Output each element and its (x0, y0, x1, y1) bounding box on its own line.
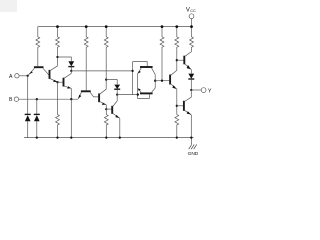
node R10 rail junction (176, 136, 178, 138)
diode D2 input clamp B (36, 99, 38, 137)
node R2/Q2 collector (56, 56, 58, 58)
diode D3 (68, 61, 74, 66)
svg-text:A: A (9, 74, 13, 80)
diode D1 input clamp A (27, 76, 29, 138)
wire Q9 emitter vertical (176, 89, 178, 114)
node Q11 emitter rail junction (190, 136, 192, 138)
resistor R7 (190, 27, 194, 52)
wire R2 node to D3 (58, 57, 72, 61)
node XOR left junction (131, 70, 133, 72)
transistor Q8 (XOR pair bottom) (140, 92, 153, 94)
resistor R1 (36, 27, 40, 67)
node Q4 emitter / B wire (70, 98, 72, 100)
wire Q4 base (58, 81, 63, 83)
svg-text:CC: CC (190, 9, 196, 13)
transistor Q1 (input A) (34, 66, 44, 68)
node Q6 emitter rail junction (119, 136, 121, 138)
output Y terminal (201, 88, 206, 93)
resistor R10 lower (175, 115, 179, 138)
transistor Q7 (XOR pair top) (140, 66, 153, 68)
node Q8 base junction (137, 93, 139, 95)
wire XOR pair right vertical (154, 74, 156, 88)
resistor R8 lower (56, 82, 60, 137)
transistor Q11 (pull-down) (183, 101, 185, 111)
node D4 cathode junction (116, 93, 118, 95)
input B terminal (14, 97, 18, 101)
wire middle node to XOR pair (71, 70, 132, 72)
node Q5 emitter junction (105, 108, 107, 110)
node D3 cathode junction (70, 70, 72, 72)
resistor R9 lower (104, 115, 108, 138)
resistor R2 (56, 27, 60, 57)
wire Q7 emitter vertical (137, 74, 139, 95)
wire XOR pair left vertical (132, 62, 134, 95)
ground (190, 138, 192, 145)
resistor R6 (175, 27, 179, 61)
node rail junctions (56, 25, 193, 28)
node B rail junction (36, 136, 38, 138)
transistor Q5 (98, 93, 100, 102)
diode D5 output (190, 70, 192, 74)
wire input A (19, 75, 28, 77)
wire Q10 base (177, 59, 184, 61)
Vcc terminal (189, 14, 194, 19)
svg-text:Y: Y (208, 88, 212, 94)
node R8 rail junction (56, 136, 58, 138)
wire output (191, 89, 201, 91)
wire Q4 emitter to rail (70, 99, 72, 137)
wire bottom GND rail (24, 137, 194, 139)
transistor Q6 (111, 106, 113, 114)
node rail junction (70, 136, 72, 138)
node Q9 emitter / Q11 base junction (176, 105, 178, 107)
wire Q11 base (177, 105, 184, 107)
node R5 junction (161, 80, 163, 82)
wire Q6 base (106, 108, 111, 110)
wire Q8 base loop (138, 94, 150, 98)
wire input B (19, 98, 78, 100)
transistor Q3 (input B) (81, 90, 91, 92)
resistor R5 (160, 27, 164, 81)
resistor R3 (84, 27, 88, 91)
wire Vcc top rail (38, 26, 192, 28)
node B junction (36, 98, 38, 100)
node XOR right junction (154, 80, 156, 82)
wire XOR output to Q9 base (155, 80, 169, 82)
diode D4 (114, 85, 120, 89)
wire R4 node to D4 (106, 80, 117, 85)
transistor Q2 (49, 70, 51, 79)
faint artifact rectangle (0, 0, 17, 12)
resistor R4 (104, 27, 108, 80)
wire D4 node to XOR pair (117, 94, 138, 96)
svg-text:GND: GND (188, 151, 199, 157)
transistor Q10 (pull-up) (183, 56, 185, 65)
node Q2 emitter / Q4 base (56, 81, 58, 83)
node R9 rail junction (105, 136, 107, 138)
node R6 / Q10 base junction (176, 59, 178, 61)
node A junction (27, 75, 29, 77)
svg-text:B: B (9, 97, 13, 103)
wire Q7 base loop (133, 62, 148, 67)
node R4/D4 junction (105, 78, 107, 80)
input A terminal (15, 74, 19, 78)
transistor Q4 (63, 78, 65, 87)
transistor Q9 (phase splitter) (169, 75, 171, 85)
node output Y junction (190, 89, 192, 91)
